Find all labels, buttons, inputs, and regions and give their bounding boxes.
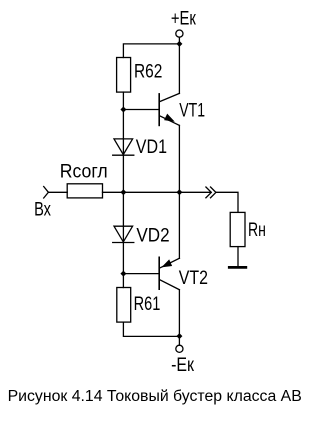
wire VT2 base: [123, 273, 159, 275]
wire VT1 emitter to output node: [178, 125, 180, 192]
wire input to Rsogl: [48, 191, 67, 193]
wire R62 bottom to VD1: [122, 92, 124, 139]
wire junction to -Ek terminal: [178, 336, 180, 345]
terminal +Ek: [176, 30, 183, 37]
svg-text:-Ек: -Ек: [171, 354, 194, 376]
wire Rsogl to input node: [103, 191, 124, 193]
wire +Ek rail down to VT1 collector: [178, 37, 180, 93]
svg-text:R62: R62: [134, 61, 162, 83]
junction bottom rail: [176, 333, 182, 339]
svg-text:VD2: VD2: [136, 224, 169, 246]
resistor Rn: [230, 212, 245, 246]
resistor R61: [117, 288, 131, 323]
svg-text:Вх: Вх: [34, 198, 51, 220]
junction VT2 base node: [120, 271, 126, 277]
wire VT2 base node to R61: [122, 274, 124, 288]
ground: [229, 266, 246, 269]
svg-text:Rсогл: Rсогл: [60, 160, 108, 182]
wire output node to VD2: [122, 192, 124, 226]
junction output node: [176, 189, 182, 195]
svg-text:Рисунок 4.14 Токовый бустер кл: Рисунок 4.14 Токовый бустер класса АВ: [8, 388, 302, 405]
svg-text:Rн: Rн: [248, 219, 266, 241]
terminal -Ek: [176, 345, 183, 352]
transistor VT1: [159, 93, 179, 125]
wire input node to output node: [123, 191, 179, 193]
input terminal arrow: [44, 187, 49, 199]
wire VD2 to VT2 base node: [122, 243, 124, 274]
junction top rail: [176, 41, 182, 47]
wire R61 to bottom rail: [123, 322, 179, 336]
wire VT2 collector to bottom rail: [178, 290, 180, 336]
wire output node to VT2 emitter: [178, 192, 180, 258]
wire VT1 base: [123, 109, 159, 111]
output chevron marks: [206, 187, 216, 198]
wire chevron to Rn: [216, 192, 238, 212]
junction R62 / VT1 base: [120, 107, 126, 113]
svg-text:R61: R61: [134, 293, 161, 315]
svg-text:VD1: VD1: [136, 136, 167, 158]
svg-text:VT2: VT2: [179, 267, 208, 289]
wire Rn to ground: [237, 247, 239, 267]
wire output node to chevron: [179, 191, 211, 193]
svg-text:VT1: VT1: [179, 99, 205, 121]
diode VD2: [113, 226, 134, 242]
wire top rail to R62: [123, 44, 179, 58]
wire VD1 to input node: [122, 155, 124, 192]
diode VD1: [113, 139, 134, 155]
svg-text:+Ек: +Ек: [171, 8, 196, 30]
resistor Rsogl: [67, 184, 102, 198]
resistor R62: [117, 58, 131, 93]
transistor VT2: [159, 257, 179, 289]
junction input node: [120, 189, 126, 195]
